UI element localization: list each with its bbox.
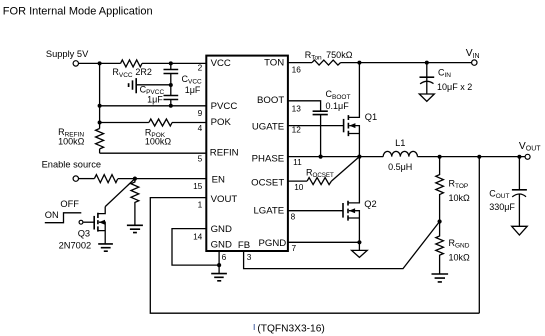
node mid caps: [169, 83, 173, 87]
inductor L1: [383, 151, 417, 156]
node supply/PVCC branch: [98, 61, 102, 65]
capacitor lower plates to PVCC: [164, 96, 179, 100]
svg-text:13: 13: [292, 103, 302, 113]
wire ROCSET diagonal to phase: [331, 157, 359, 182]
wire left vertical rail: [99, 63, 101, 128]
svg-text:VOUT: VOUT: [211, 194, 238, 205]
resistor RVCC: [121, 60, 143, 67]
node COUT on rail: [517, 155, 521, 159]
transistor Q3: [84, 221, 94, 223]
svg-text:POK: POK: [211, 117, 232, 128]
svg-text:VCC: VCC: [211, 58, 231, 69]
wire supply to RVCC: [79, 62, 121, 64]
svg-text:L1: L1: [395, 138, 405, 148]
svg-text:0.1μF: 0.1μF: [326, 101, 350, 111]
svg-text:FB: FB: [238, 240, 250, 251]
node RTOP on rail: [438, 155, 442, 159]
svg-text:0.5μH: 0.5μH: [388, 162, 412, 172]
wire OCSET pin10: [288, 180, 307, 182]
svg-text:7: 7: [292, 243, 297, 253]
svg-text:8: 8: [291, 211, 296, 221]
svg-text:GND: GND: [211, 224, 232, 235]
wire LGATE pin8: [288, 210, 343, 212]
svg-text:100kΩ: 100kΩ: [58, 136, 85, 146]
svg-text:PVCC: PVCC: [211, 101, 238, 112]
wire pulldown to ground: [134, 209, 136, 225]
node phase Q1 source: [357, 155, 361, 159]
svg-text:11: 11: [293, 157, 302, 167]
capacitor CIN: [426, 63, 428, 94]
wire POK pin4 left: [100, 122, 149, 124]
node GND join: [217, 263, 221, 267]
wire BOOT pin13: [288, 101, 321, 111]
node CBOOT phase: [319, 155, 323, 159]
svg-text:3: 3: [247, 252, 252, 262]
capacitor CPVCC: [128, 83, 130, 87]
wire TON pin16: [288, 62, 312, 64]
node PGND: [357, 240, 361, 244]
VOUT terminal circle: [525, 154, 530, 159]
wire PHASE pin11: [288, 156, 383, 158]
wire RVCC to VCC pin2: [142, 62, 206, 64]
svg-text:ON: ON: [45, 210, 59, 220]
wire resistor to EN pin15: [118, 178, 206, 180]
svg-text:GND: GND: [211, 239, 232, 250]
ground RGND: [432, 274, 449, 282]
svg-text:PHASE: PHASE: [252, 153, 285, 164]
supply terminal circle: [73, 61, 78, 66]
svg-text:OCSET: OCSET: [251, 178, 284, 189]
ground COUT triangle: [512, 226, 528, 235]
transistor Q1: [348, 63, 359, 118]
wire diagonal EN to Q3 drain: [105, 179, 135, 207]
enable terminal circle: [73, 176, 78, 181]
wire RTon to VIN: [341, 62, 472, 64]
wire VOUT rail: [417, 156, 525, 158]
svg-text:OFF: OFF: [60, 199, 79, 209]
resistor EN pulldown: [131, 179, 139, 209]
node divider: [438, 219, 442, 223]
transistor Q3 gate terminal circle: [79, 220, 83, 224]
capacitor COUT: [518, 157, 520, 190]
resistor ROCSET: [307, 178, 331, 185]
svg-text:9: 9: [198, 108, 203, 118]
svg-text:BOOT: BOOT: [257, 95, 284, 106]
svg-text:Q2: Q2: [364, 199, 376, 209]
wire PVCC pin9: [100, 105, 207, 107]
svg-text:1μF: 1μF: [185, 85, 201, 95]
resistor enable series: [94, 175, 117, 183]
node PVCC cap: [169, 104, 173, 108]
resistor RTon: [312, 60, 341, 65]
wire RREFIN to REFIN line: [99, 149, 101, 153]
ground CIN triangle: [419, 94, 434, 101]
wire RPOK to POK pin: [172, 122, 206, 124]
resistor RPOK: [149, 119, 172, 126]
resistor RTOP: [436, 157, 444, 222]
svg-text:EN: EN: [212, 175, 225, 186]
caption mark: [254, 324, 255, 330]
svg-text:10kΩ: 10kΩ: [449, 253, 471, 263]
svg-text:(TQFN3X3-16): (TQFN3X3-16): [257, 324, 324, 335]
resistor RGND: [436, 222, 444, 274]
resistor RREFIN: [96, 129, 104, 149]
svg-text:330μF: 330μF: [489, 202, 515, 212]
svg-text:TON: TON: [264, 58, 284, 69]
wire GND pin6 stub: [218, 251, 220, 273]
svg-text:Q1: Q1: [365, 112, 377, 122]
wire GND pin14: [172, 229, 219, 266]
wire UGATE pin12: [288, 125, 344, 127]
ground Q3 source: [98, 244, 113, 251]
node EN: [133, 177, 137, 181]
svg-text:5: 5: [198, 154, 203, 164]
wire VOUT pin1 loop: [150, 198, 479, 314]
ground PGND triangle: [352, 250, 368, 257]
transistor Q2: [348, 157, 359, 203]
node PVCC left: [98, 104, 102, 108]
svg-text:Supply 5V: Supply 5V: [46, 49, 89, 59]
svg-text:FOR Internal Mode Application: FOR Internal Mode Application: [3, 6, 153, 18]
svg-text:PGND: PGND: [258, 238, 286, 249]
svg-text:10μF x 2: 10μF x 2: [437, 82, 472, 92]
ground EN pulldown: [127, 225, 143, 232]
node CIN on VIN rail: [425, 61, 429, 65]
svg-text:LGATE: LGATE: [253, 205, 284, 216]
wire enable to resistor: [79, 178, 95, 180]
wire REFIN pin5: [100, 152, 207, 154]
ground pin6: [211, 274, 227, 281]
node Q1 drain on VIN rail: [357, 61, 361, 65]
switch step symbol: [45, 213, 82, 223]
svg-text:14: 14: [193, 232, 203, 242]
capacitor CVCC: [170, 63, 172, 69]
svg-text:Q3: Q3: [78, 229, 90, 239]
wire FB pin3: [244, 222, 440, 269]
VIN terminal circle: [472, 60, 477, 65]
svg-text:Enable source: Enable source: [42, 160, 101, 170]
svg-text:2N7002: 2N7002: [59, 240, 92, 250]
node sense on rail: [477, 155, 481, 159]
svg-text:1μF: 1μF: [147, 94, 163, 104]
svg-text:15: 15: [193, 181, 203, 191]
svg-text:10: 10: [294, 182, 304, 192]
IC U1 box: [206, 56, 288, 251]
svg-text:100kΩ: 100kΩ: [145, 137, 172, 147]
svg-text:16: 16: [292, 64, 302, 74]
svg-text:10kΩ: 10kΩ: [449, 193, 471, 203]
wire PGND pin7: [288, 241, 360, 243]
wire PGND to ground: [358, 242, 360, 250]
svg-text:1: 1: [198, 200, 203, 210]
wire output sense vertical: [478, 157, 480, 313]
capacitor CBOOT: [313, 111, 328, 114]
node CVCC top: [169, 61, 173, 65]
svg-text:4: 4: [198, 123, 203, 133]
svg-text:UGATE: UGATE: [252, 122, 284, 133]
svg-text:REFIN: REFIN: [210, 148, 239, 159]
node POK branch: [98, 121, 102, 125]
svg-text:6: 6: [222, 252, 227, 262]
